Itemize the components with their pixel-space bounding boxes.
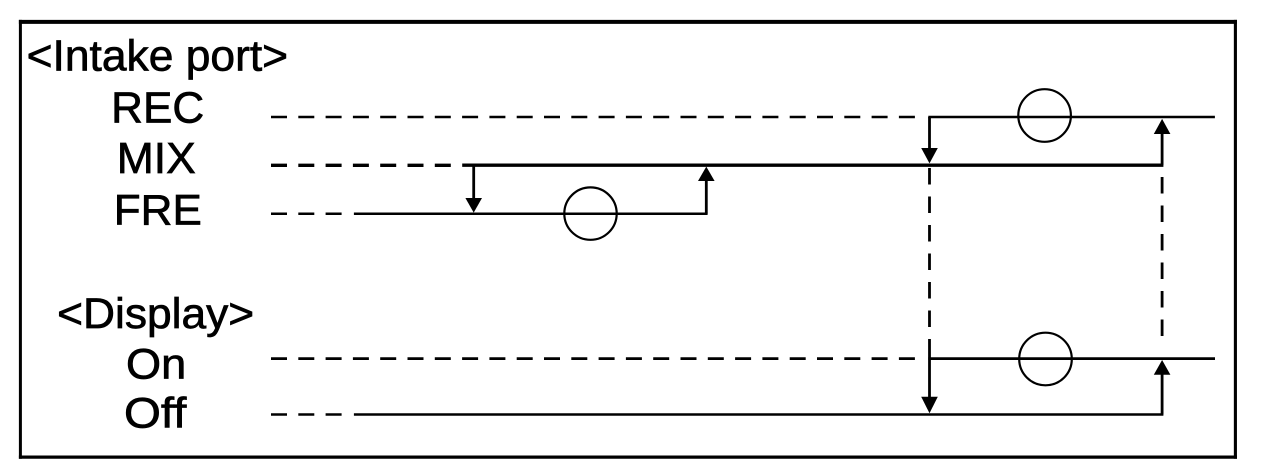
svg-text:On: On — [126, 342, 186, 389]
MIX solid segment — [462, 163, 1163, 166]
transition arrow FRE to MIX — [698, 167, 715, 214]
On dashed level line — [271, 357, 918, 360]
transition arrow MIX to REC — [1154, 119, 1171, 165]
sync dashed vertical at event 2 — [928, 168, 931, 344]
REC dashed level line — [271, 116, 918, 118]
MIX dashed level line — [271, 164, 452, 167]
svg-text:<Intake port>: <Intake port> — [27, 32, 289, 80]
transition arrow MIX to FRE — [465, 165, 482, 212]
outer frame left edge — [19, 20, 22, 459]
event circle on FRE — [564, 187, 616, 239]
event circle on REC — [1018, 89, 1071, 142]
svg-text:REC: REC — [111, 85, 204, 133]
transition arrow REC to MIX — [921, 117, 938, 163]
transition arrow Off to On — [1154, 360, 1171, 415]
Off dashed level line — [271, 413, 342, 416]
sync dashed vertical at event 3 — [1161, 177, 1164, 346]
On solid segment — [928, 357, 1215, 360]
outer frame top edge — [19, 20, 1237, 24]
svg-text:<Display>: <Display> — [57, 290, 254, 338]
event circle on On — [1019, 333, 1072, 386]
outer frame right edge — [1234, 20, 1237, 459]
transition arrow On to Off — [921, 344, 938, 413]
svg-text:Off: Off — [124, 390, 188, 438]
svg-text:MIX: MIX — [117, 135, 196, 183]
FRE solid segment — [354, 212, 708, 215]
Off solid segment — [354, 413, 1164, 416]
svg-text:FRE: FRE — [114, 187, 202, 235]
outer frame bottom edge — [19, 456, 1237, 459]
REC solid segment — [928, 116, 1215, 118]
FRE dashed level line — [271, 212, 342, 215]
